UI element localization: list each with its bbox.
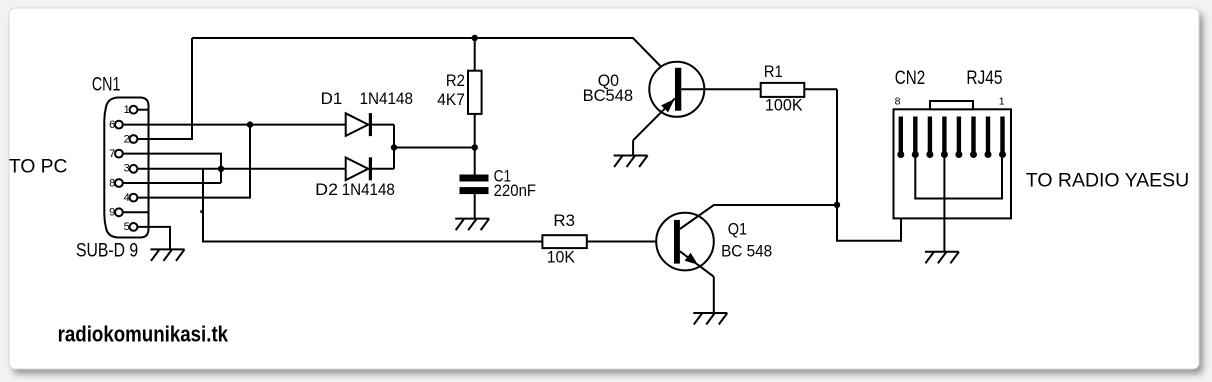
svg-text:R3: R3 <box>553 212 575 230</box>
ground below pin 5 <box>151 249 185 261</box>
wire pin5 to ground <box>137 227 170 250</box>
svg-text:1N4148: 1N4148 <box>360 90 414 108</box>
CN2 pin 3 <box>970 117 977 159</box>
svg-text:7: 7 <box>109 148 115 160</box>
CN2 pin 7 <box>912 117 919 159</box>
CN1 pin 4 <box>124 192 138 204</box>
resistor R2 <box>468 38 482 148</box>
svg-text:1: 1 <box>999 95 1005 107</box>
svg-text:BC548: BC548 <box>583 87 634 105</box>
svg-text:100K: 100K <box>765 97 803 115</box>
CN1 pin 7 <box>109 148 123 160</box>
svg-text:4: 4 <box>124 192 130 204</box>
wire pin2 to top rail <box>137 38 192 139</box>
wire top rail <box>192 38 675 81</box>
CN1 pin 5 <box>124 221 138 233</box>
ground below CN2 <box>925 252 959 263</box>
CN1 pin 3 <box>124 163 138 175</box>
svg-text:3: 3 <box>124 163 130 175</box>
capacitor C1 <box>460 148 489 219</box>
svg-text:8: 8 <box>895 95 901 107</box>
wire pin7 down to pin8 line <box>123 154 222 183</box>
svg-text:R1: R1 <box>764 63 783 81</box>
CN2 pin 1 <box>999 117 1006 159</box>
svg-text:1N4148: 1N4148 <box>342 181 395 199</box>
wire diodes node to R2/C1 node <box>394 147 475 149</box>
wire pin4 up to pin6 line <box>137 125 250 198</box>
CN2 pin 4 <box>955 117 962 159</box>
CN1 pin 1 <box>124 104 149 116</box>
CN1 pin 9 <box>109 207 148 219</box>
svg-text:TO RADIO YAESU: TO RADIO YAESU <box>1026 169 1189 191</box>
junction R2/C1 node <box>472 144 478 150</box>
connector CN1 (SUB-D 9 body) <box>104 98 148 238</box>
CN2 pin 2 <box>985 117 992 159</box>
wire CN2 pin7 to pin1 <box>915 155 1002 199</box>
wire CN2 pin5 to ground <box>943 155 945 252</box>
svg-text:8: 8 <box>109 177 115 189</box>
resistor R3 <box>542 235 674 248</box>
diode D1 <box>346 113 394 147</box>
ground below C1 <box>455 219 489 231</box>
resistor R1 <box>761 83 837 97</box>
svg-text:SUB-D 9: SUB-D 9 <box>76 240 138 261</box>
svg-text:5: 5 <box>124 221 130 233</box>
svg-text:D2: D2 <box>315 181 338 199</box>
junction tick on vertical <box>200 210 203 213</box>
wire R1 down the right bus <box>837 89 901 241</box>
svg-text:R2: R2 <box>446 72 465 90</box>
svg-text:Q1: Q1 <box>728 220 747 238</box>
svg-text:9: 9 <box>109 207 115 219</box>
junction pin3/pin7/pin8 node <box>218 166 224 172</box>
svg-text:TO PC: TO PC <box>9 156 68 178</box>
junction pin6/pin4 node <box>247 121 253 127</box>
CN1 pin 8 <box>109 177 123 189</box>
svg-text:BC 548: BC 548 <box>721 243 772 261</box>
CN2 pin 6 <box>926 117 933 159</box>
svg-text:220nF: 220nF <box>494 182 536 200</box>
CN1 pin 2 <box>124 133 138 145</box>
svg-text:D1: D1 <box>321 90 343 108</box>
CN1 pin 6 <box>109 119 123 131</box>
CN2 pin 8 <box>897 117 904 159</box>
svg-text:CN2: CN2 <box>895 68 925 89</box>
wire pin3 to D2 anode <box>137 168 345 170</box>
CN2 pin 5 <box>941 117 948 159</box>
wire pin8 <box>123 182 222 184</box>
junction top rail / R2 <box>472 35 478 41</box>
junction bus / Q1 collector <box>834 202 840 208</box>
diode D2 <box>346 148 394 181</box>
svg-text:RJ45: RJ45 <box>966 68 1002 89</box>
svg-text:4K7: 4K7 <box>437 91 465 109</box>
svg-text:6: 6 <box>109 119 115 131</box>
wire pin6 to D1 anode <box>123 124 346 126</box>
connector CN2 (RJ45 body) <box>894 101 1012 218</box>
svg-text:CN1: CN1 <box>92 75 121 96</box>
svg-text:2: 2 <box>124 133 130 145</box>
svg-text:radiokomunikasi.tk: radiokomunikasi.tk <box>58 322 229 347</box>
junction diodes node <box>391 144 397 150</box>
ground below Q1 emitter <box>693 313 727 325</box>
svg-text:1: 1 <box>124 104 130 116</box>
svg-text:10K: 10K <box>547 249 575 267</box>
transistor Q0 <box>633 62 761 156</box>
ground below Q0 emitter <box>614 156 648 168</box>
wire pin3 node down and right to R3 <box>203 169 542 242</box>
transistor Q1 <box>656 205 837 313</box>
